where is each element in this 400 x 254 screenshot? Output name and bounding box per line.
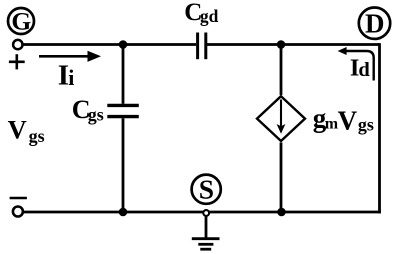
svg-text:G: G (11, 6, 31, 35)
svg-text:d: d (358, 59, 370, 81)
svg-text:S: S (199, 174, 214, 205)
svg-text:V: V (8, 115, 27, 145)
svg-text:D: D (365, 8, 385, 38)
svg-text:V: V (338, 105, 358, 135)
svg-text:gd: gd (200, 6, 219, 26)
svg-text:i: i (68, 65, 74, 90)
svg-text:gs: gs (358, 115, 374, 135)
svg-text:gs: gs (88, 104, 104, 124)
svg-text:gs: gs (29, 126, 45, 146)
